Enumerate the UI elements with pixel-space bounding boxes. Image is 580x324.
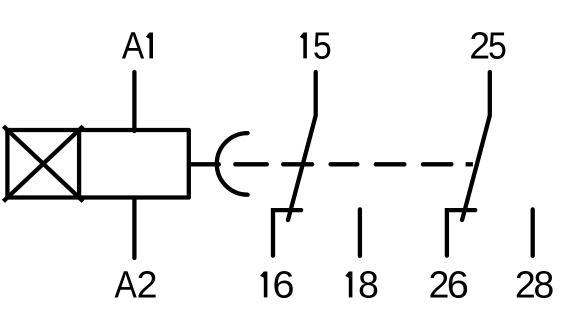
wire 18 terminal — [358, 209, 362, 255]
svg-text:6: 6 — [272, 264, 294, 306]
contact 25 moving blade (wire 25 + diagonal) — [462, 72, 490, 220]
coil X diagonal 1 — [3, 126, 83, 201]
svg-text:8: 8 — [533, 263, 554, 305]
coil X diagonal 2 — [3, 126, 83, 201]
svg-text:5: 5 — [488, 25, 507, 67]
svg-text:2: 2 — [137, 263, 158, 305]
dashed mechanical link dash 2 — [283, 162, 312, 166]
contact 26 fixed terminal hook — [447, 210, 475, 256]
label 16 — [260, 264, 294, 306]
svg-text:5: 5 — [313, 25, 332, 67]
dashed mechanical link dash 5 — [423, 162, 452, 166]
wire from coil box to actuator arc — [189, 162, 219, 166]
label 28 — [515, 263, 554, 305]
svg-text:A: A — [122, 25, 145, 67]
label 26 — [428, 263, 468, 306]
label 25 — [469, 24, 507, 66]
contact 15 moving blade (wire 15 + diagonal) — [288, 72, 316, 220]
coil/timer box outline — [7, 130, 188, 198]
label 15 — [300, 25, 332, 67]
label A2 — [114, 263, 157, 305]
wire A2 — [132, 198, 136, 259]
label 18 — [345, 263, 379, 305]
wire 28 terminal — [531, 209, 535, 255]
actuator arc (delay device symbol) — [217, 133, 248, 195]
dashed mechanical link dash 6 — [466, 162, 473, 166]
dashed mechanical link dash 3 — [331, 162, 358, 166]
svg-text:A: A — [114, 264, 137, 306]
dashed mechanical link dash 1 — [235, 162, 266, 166]
svg-text:6: 6 — [447, 264, 469, 306]
label A1 — [122, 25, 153, 67]
wire A1 — [132, 72, 136, 131]
dashed mechanical link dash 4 — [376, 162, 405, 166]
svg-text:2: 2 — [469, 24, 490, 66]
svg-text:8: 8 — [358, 263, 379, 305]
contact 16 fixed terminal hook — [273, 210, 301, 256]
coil box divider — [77, 130, 81, 198]
